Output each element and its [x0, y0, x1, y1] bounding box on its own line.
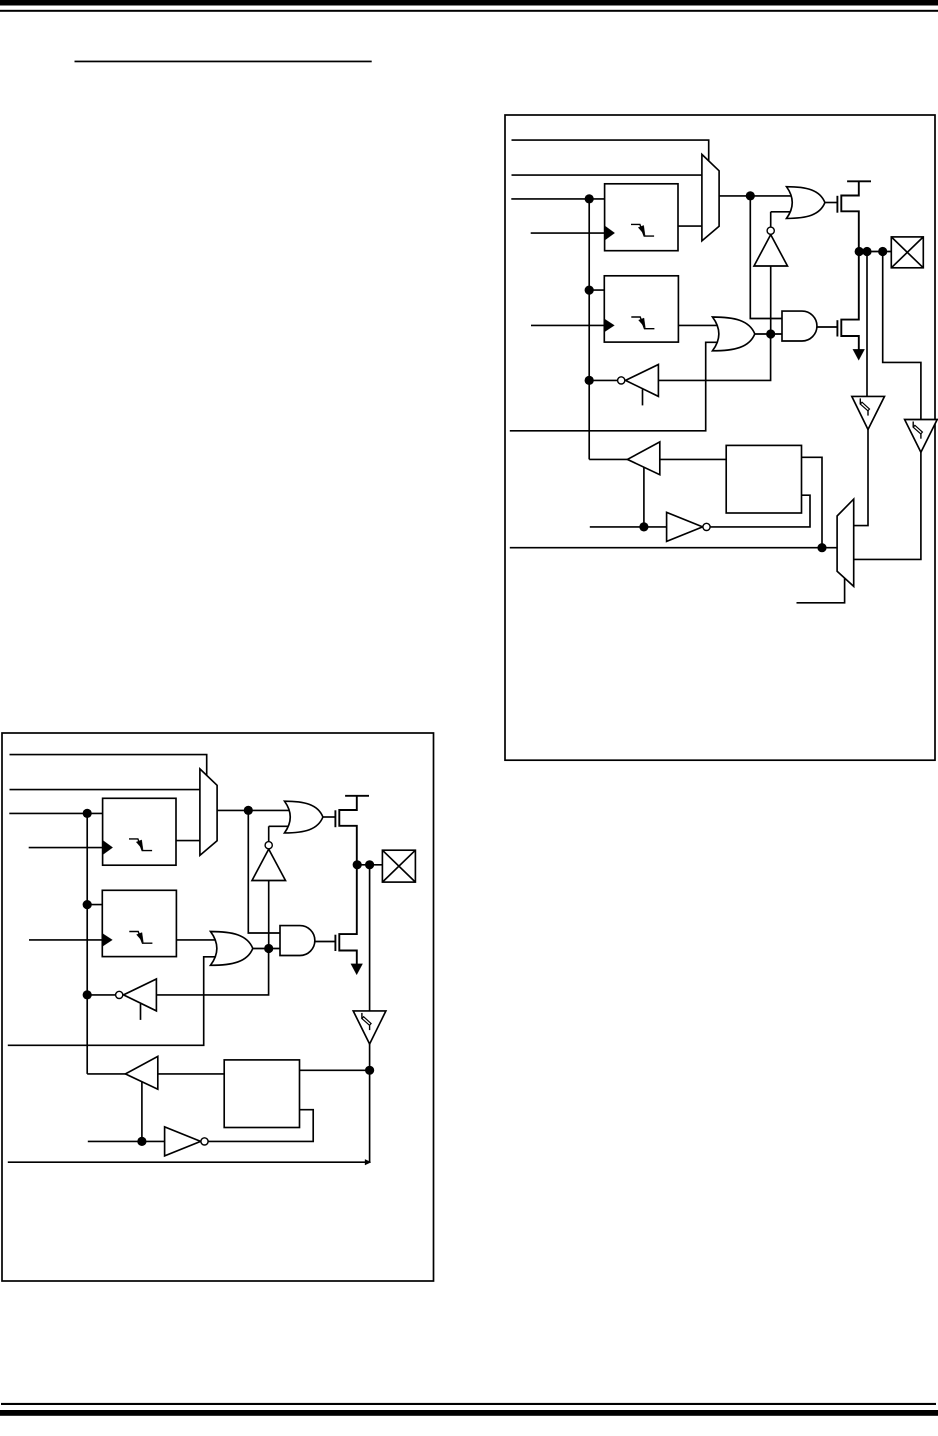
wire mux2 select A	[797, 578, 845, 603]
node pin junction A2	[862, 247, 871, 256]
pin pad diagonal A2	[891, 237, 923, 268]
latch U1A edge glyph	[631, 224, 654, 236]
transistor Q2B gate bar	[334, 935, 336, 951]
latch U1A (data latch)	[605, 184, 678, 251]
power VDD rail B	[345, 795, 369, 797]
and-gate G3B	[280, 926, 315, 956]
node output-bus junction A	[817, 543, 826, 552]
node bus junction Ac	[585, 376, 594, 385]
node pin junction A1	[855, 247, 864, 256]
transistor Q1B gate bar	[334, 810, 336, 827]
diagram frame (pin block diagram B)	[2, 733, 434, 1281]
latch box U3A	[726, 445, 801, 513]
wire buffer-in A	[660, 458, 726, 460]
wire output bus B	[8, 1161, 365, 1163]
wire schmitt2-out A	[854, 452, 921, 559]
or-gate G1B	[285, 801, 323, 833]
node bus junction Ab	[585, 286, 594, 295]
diagram frame (pin block diagram A)	[505, 115, 935, 760]
transistor Q1A gate bar	[836, 196, 838, 213]
inverter N1B bubble	[265, 842, 272, 849]
wire bus-to-latch2 stub B	[87, 904, 104, 906]
wire mux select input B2	[10, 789, 200, 791]
wire WR clock 2 A	[531, 324, 604, 326]
wire inv1-bubble stub B	[268, 826, 270, 841]
pin pad (I/O pin) B	[382, 850, 415, 882]
heading underline	[75, 61, 372, 63]
transistor Q2A channel	[841, 252, 859, 351]
node bus junction Ba	[83, 809, 92, 818]
wire inv1-in B	[268, 881, 270, 949]
wire latch1-out B	[176, 840, 200, 842]
pin pad diagonal A1	[891, 237, 923, 268]
wire inv1-out stub A	[771, 211, 793, 213]
or-gate G1A	[787, 187, 825, 219]
wire or2-lower-input riser A	[510, 342, 718, 431]
wire pin node row B	[357, 864, 383, 866]
header rule	[0, 10, 938, 12]
wire latch2-out A	[678, 324, 717, 326]
node bus junction Bc	[83, 990, 92, 999]
wire schmitt1-out A	[854, 430, 868, 526]
node mux1-out junction B	[244, 806, 253, 815]
or-gate G2A	[713, 317, 755, 351]
latch U1B edge glyph	[129, 839, 152, 851]
inverter N2B bubble	[116, 991, 123, 998]
multiplexer M1B	[200, 769, 217, 856]
clock wedge U2B	[103, 934, 113, 946]
multiplexer M1A	[702, 154, 719, 241]
node or2-out junction A	[766, 329, 775, 338]
wire and-to-nmos gate B	[315, 941, 336, 943]
wire inv1-bubble stub A	[770, 212, 772, 227]
wire or2-out A	[755, 333, 790, 335]
wire latchbox-port-to-node B	[300, 1069, 370, 1071]
inverter N1A bubble	[767, 227, 774, 234]
latch box U3B	[224, 1060, 299, 1128]
wire or2-out B	[253, 948, 288, 950]
latch U1B (data latch)	[103, 798, 176, 865]
wire pin-to-schmitt1 A	[866, 252, 868, 397]
inverter N4A	[667, 512, 703, 541]
wire tris-read input B	[156, 949, 268, 995]
wire pin-to-schmitt2 A	[883, 252, 921, 420]
transistor Q2B channel	[339, 866, 357, 965]
footer rule	[1, 1403, 936, 1405]
node pin junction B2	[365, 860, 374, 869]
ground VSS arrow A	[853, 349, 865, 360]
wire mux1-out B	[217, 809, 291, 811]
latch U2B edge glyph	[129, 932, 152, 944]
multiplexer M2A	[837, 499, 854, 586]
wire bus input A1	[512, 140, 709, 161]
node bus junction Bb	[83, 900, 92, 909]
inverter N1A	[754, 235, 788, 266]
wire and-to-nmos gate A	[817, 326, 838, 328]
transistor Q2A gate bar	[836, 320, 838, 336]
schmitt trigger S1B	[353, 1011, 386, 1044]
output bus arrowhead B	[365, 1159, 371, 1165]
latch U2A edge glyph	[631, 317, 654, 329]
schmitt trigger S1A	[852, 396, 885, 429]
node schmitt-out junction B	[365, 1066, 374, 1075]
buffer N3B enable stub	[141, 1082, 143, 1142]
transistor Q1B channel	[339, 796, 357, 866]
wire pin-to-schmitt1 B	[369, 865, 371, 1011]
wire bus-to-buffer B	[87, 1073, 127, 1075]
inverter N4B bubble	[201, 1138, 208, 1145]
buffer N3B (rd port)	[125, 1056, 157, 1089]
or-gate G2B	[211, 932, 253, 966]
wire mux1-out A	[719, 195, 793, 197]
wire mux1out-to-and B	[248, 810, 282, 933]
wire schmitt1-out B	[369, 1044, 371, 1162]
inverter N2A enable stub	[642, 389, 644, 405]
inverter N2A (rd tris)	[626, 365, 659, 397]
wire buffer-in B	[158, 1073, 224, 1075]
pin pad diagonal B2	[382, 850, 415, 882]
power VDD rail A	[847, 180, 871, 182]
wire bus-to-buffer A	[589, 458, 629, 460]
wire rd-port line A	[590, 526, 667, 528]
schmitt S1A hysteresis glyph	[859, 398, 861, 404]
clock wedge U1A	[605, 226, 615, 240]
wire WR clock 1 B	[29, 847, 103, 849]
node rd-line junction A	[639, 522, 648, 531]
wire inv1-in A	[770, 266, 772, 334]
wire bus input B1	[10, 755, 207, 776]
node or2-out junction B	[264, 944, 273, 953]
wire mux select input A2	[512, 174, 702, 176]
clock wedge U1B	[103, 841, 113, 855]
inverter N4B	[165, 1127, 201, 1156]
wire inv4-out feedback A	[710, 495, 810, 527]
inverter N1B	[252, 849, 286, 880]
pin pad (I/O pin) A	[891, 237, 923, 268]
wire inv1-out stub B	[269, 825, 291, 827]
schmitt trigger S2A	[905, 420, 938, 453]
wire latch2-out B	[176, 939, 215, 941]
schmitt S1B hysteresis glyph	[361, 1013, 363, 1019]
buffer N3A enable stub	[643, 467, 645, 527]
node bus junction Aa	[585, 194, 594, 203]
footer bottom bar	[0, 1410, 938, 1416]
ground VSS arrow B	[351, 964, 363, 975]
wire rd-port line B	[88, 1140, 165, 1142]
pin pad diagonal B1	[382, 850, 415, 882]
wire data input A3	[511, 198, 606, 200]
wire pin node row A	[859, 251, 892, 253]
wire data input B3	[9, 812, 104, 814]
wire vertical bus A	[588, 199, 590, 460]
wire tris-read line A	[589, 379, 617, 381]
wire inv4-out feedback B	[208, 1110, 313, 1142]
wire vertical bus B	[86, 813, 88, 1074]
node pin junction B1	[353, 860, 362, 869]
clock wedge U2A	[605, 319, 615, 331]
wire or1-to-pmos gate B	[323, 816, 336, 818]
wire output bus A	[510, 547, 837, 549]
node rd-line junction B	[137, 1137, 146, 1146]
and-gate G3A	[782, 311, 817, 341]
wire or2-lower-input riser B	[8, 957, 216, 1046]
wire WR clock 2 B	[29, 939, 102, 941]
node pin junction A3	[878, 247, 887, 256]
wire latchbox-port drop A	[802, 457, 823, 547]
latch U2B (tris latch)	[102, 890, 176, 956]
wire latch1-out A	[678, 225, 702, 227]
wire tris-read input A	[658, 334, 770, 380]
wire bus-to-latch2 stub A	[589, 289, 606, 291]
inverter N4A bubble	[703, 523, 710, 530]
wire or1-to-pmos gate A	[825, 202, 838, 204]
wire mux1out-to-and A	[750, 196, 784, 319]
buffer N3A (rd port)	[627, 442, 659, 475]
transistor Q1A channel	[841, 181, 859, 251]
node mux1-out junction A	[746, 191, 755, 200]
header top bar	[0, 0, 938, 6]
wire tris-read line B	[87, 994, 115, 996]
wire WR clock 1 A	[531, 232, 605, 234]
inverter N2B (rd tris)	[124, 979, 157, 1011]
latch U2A (tris latch)	[604, 276, 678, 342]
inverter N2B enable stub	[140, 1004, 142, 1020]
schmitt S2A hysteresis glyph	[912, 422, 914, 428]
inverter N2A bubble	[618, 377, 625, 384]
